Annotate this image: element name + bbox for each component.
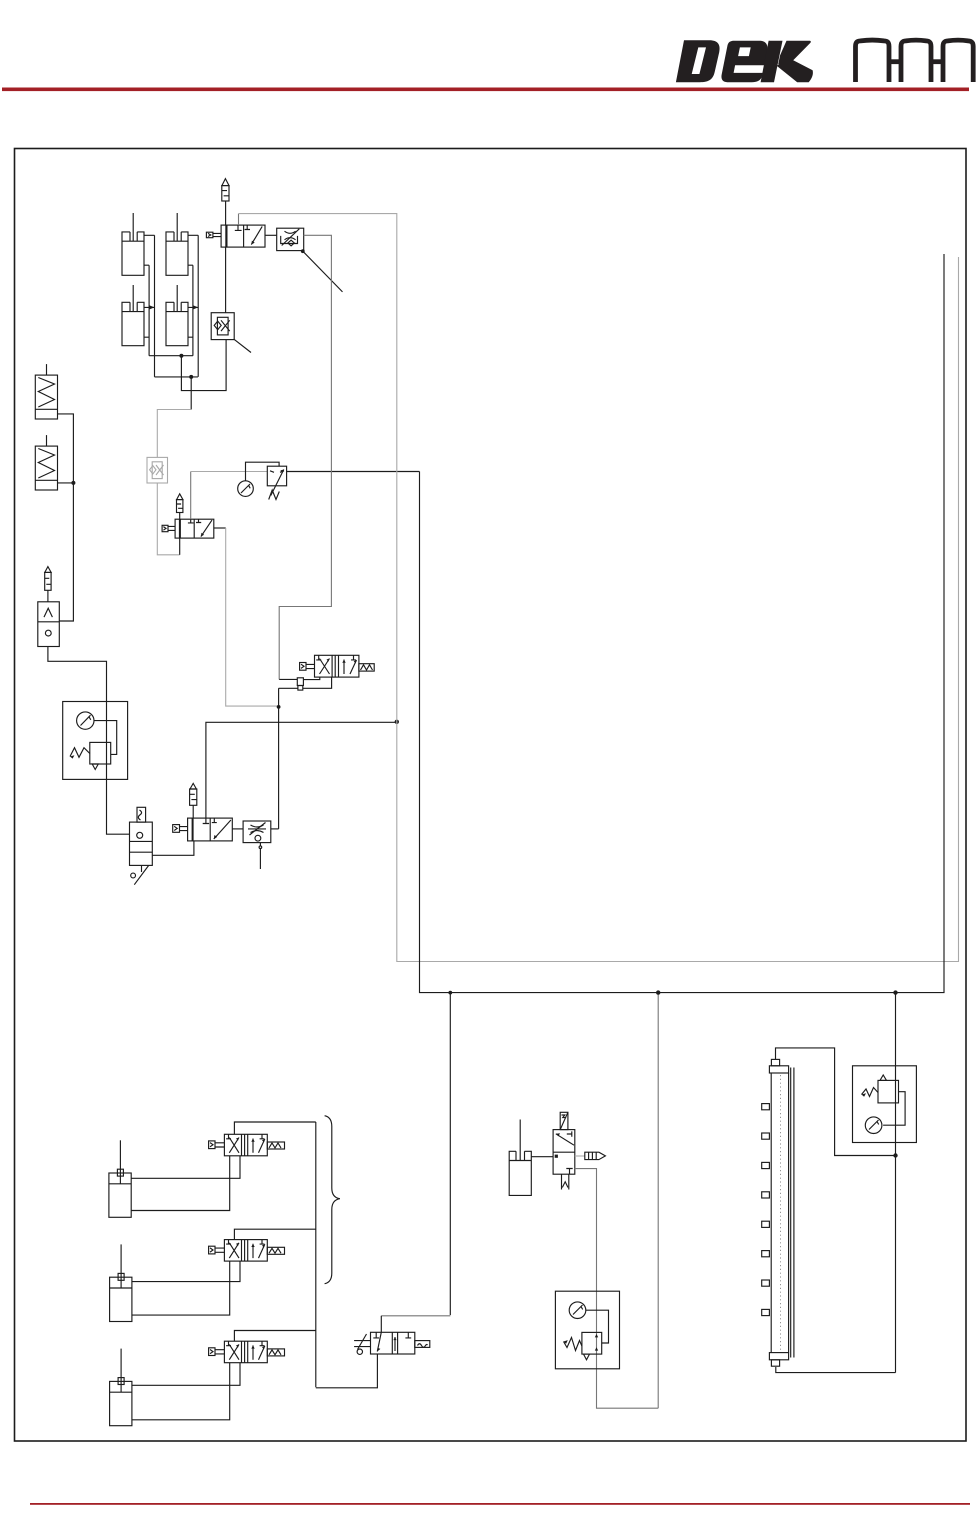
- wire V1 supply down to FC3: [225, 247, 227, 313]
- push button of V1: [206, 232, 221, 238]
- wire V2 out right: [214, 527, 226, 529]
- valve V1 (3/2 manual): [221, 225, 265, 247]
- check box CB1 (gray): [147, 457, 168, 483]
- cylinder C2: [110, 1244, 132, 1321]
- junction dot H1: [179, 354, 183, 358]
- wire fitting drop to FC2 line: [278, 722, 280, 829]
- wires cylinder C3 to valve VB3: [132, 1363, 240, 1420]
- filter above V4: [190, 783, 197, 818]
- filter above CV1: [45, 567, 51, 602]
- valve VB3 (5/2): [224, 1341, 267, 1363]
- wires cylinder C1 to valve VB1: [131, 1156, 240, 1211]
- spring of VB1: [267, 1142, 284, 1149]
- push button of VB2: [209, 1246, 225, 1254]
- spring of V3: [359, 664, 374, 671]
- drain line below FC2: [259, 843, 262, 869]
- solenoid valve SV1 (3/2): [553, 1130, 575, 1175]
- arrowheads on BL/BR port lines: [150, 305, 199, 309]
- wire lubricator to valve V4: [152, 841, 194, 855]
- cylinder TL: [122, 213, 144, 275]
- junction dot near fitting: [277, 705, 281, 709]
- valve V3 (5/2): [315, 655, 359, 677]
- brace: [325, 1116, 340, 1284]
- wire gray to CB1: [157, 410, 191, 458]
- wire V2 bottom port stub: [179, 538, 181, 555]
- regulator box RB2: [853, 1066, 917, 1143]
- wires cylinder C2 to valve VB2: [132, 1261, 240, 1315]
- wire manifold bottom link: [776, 1367, 896, 1373]
- junction dot at regulator drop: [893, 1153, 897, 1157]
- dark loop outline: [420, 254, 945, 993]
- wire V1 out to FC1: [265, 234, 277, 236]
- wire drop to solenoid group (medium): [657, 993, 659, 1409]
- wire drop to V8 (gray): [381, 1315, 450, 1317]
- filter regulator unit FRU: [63, 702, 128, 780]
- valve VB1 (5/2): [224, 1134, 267, 1156]
- junction dots on dark loop bottom: [448, 991, 452, 995]
- solenoid of SV1: [560, 1112, 568, 1129]
- lever valve V8: [371, 1332, 415, 1354]
- supply stub VB3: [234, 1331, 315, 1342]
- valve V4 (3/2): [188, 818, 233, 841]
- wire gauge G2 stem: [246, 462, 280, 481]
- push button of V3: [300, 663, 315, 671]
- cylinder C1: [109, 1140, 131, 1217]
- cylinder BL: [122, 285, 144, 346]
- push button of VB3: [209, 1348, 225, 1356]
- manifold rail: [769, 1059, 794, 1366]
- wire cylinder ports and risers: [144, 235, 198, 377]
- leader line from FC1: [303, 251, 343, 292]
- wire manifold top loop: [776, 1048, 896, 1156]
- wire drop to manifold regulator: [895, 993, 897, 1373]
- lever and roller of V8: [354, 1334, 370, 1354]
- wire supply to lever valve V8: [316, 1354, 378, 1388]
- check valve FC3 below V1: [211, 313, 234, 340]
- wire CB1 down to V2 bottom port (gray): [157, 483, 179, 555]
- manifold ports: [762, 1104, 770, 1316]
- junction dot S2: [71, 481, 75, 485]
- wire V4 to FC2: [232, 828, 243, 830]
- spring unit S1: [35, 364, 57, 419]
- junction dot H2: [189, 375, 193, 379]
- port square on SV1 left: [555, 1155, 558, 1158]
- junction dot on gray box edge: [395, 720, 399, 724]
- push button of VB1: [209, 1141, 225, 1149]
- header red rule: [2, 88, 969, 92]
- wire FRU to lubricator: [107, 779, 130, 834]
- footer red rule: [30, 1503, 970, 1505]
- cylinder TR: [166, 213, 188, 275]
- DEK logo text: [676, 40, 813, 82]
- filter above V2: [177, 494, 183, 519]
- muffler right of SV1: [575, 1152, 606, 1159]
- wire bus H1: [149, 355, 193, 357]
- flow control FC2: [243, 821, 271, 843]
- tank T1: [509, 1120, 531, 1196]
- wire H2 down: [190, 377, 192, 410]
- wire V2 top port riser: [190, 472, 192, 520]
- wire SV1 out down through RB1 (medium): [575, 1169, 658, 1409]
- wire V8 supply drop: [380, 1316, 382, 1333]
- valve VB2 (5/2): [224, 1240, 267, 1262]
- leader line from FC3: [234, 339, 251, 353]
- junction dot FC1 corner: [301, 249, 305, 253]
- pressure gauge G2: [238, 481, 254, 497]
- wires around fitting F1: [279, 677, 332, 722]
- lubricator L1: [130, 807, 153, 884]
- cylinder BR: [166, 285, 188, 346]
- wire CV1 to FRU: [48, 647, 107, 702]
- push button of V4: [173, 825, 188, 833]
- adjustment arrow of RB1: [564, 1334, 599, 1351]
- wire FC2 out to riser: [271, 828, 279, 830]
- wire regulator to dark loop: [287, 471, 420, 473]
- wire drop to bottom-left group: [449, 993, 451, 1316]
- supply stub VB1: [234, 1122, 315, 1134]
- flow control FC1: [277, 228, 304, 250]
- wire pilot line y471 (gray left part): [191, 471, 268, 473]
- valve V2 (3/2): [175, 519, 214, 538]
- spring of VB2: [267, 1247, 284, 1254]
- spring below SV1: [562, 1174, 569, 1189]
- cylinder C3: [110, 1349, 132, 1426]
- wire S1/S2 to CV1: [58, 414, 74, 621]
- DEK arches logo: [856, 40, 974, 82]
- spring unit S2: [35, 435, 57, 490]
- wire FC1 to fitting (medium gray): [279, 235, 331, 679]
- muffler M1: [222, 179, 229, 201]
- spring of VB3: [267, 1349, 284, 1356]
- wire muffler to valve V1: [225, 201, 227, 225]
- pressure regulator R1: [267, 466, 286, 499]
- gray box outline: [238, 214, 240, 226]
- wire H1 to check valve FC3: [181, 340, 226, 391]
- push button of V2: [162, 525, 175, 531]
- wire V2 out gray down to junction: [226, 528, 279, 706]
- supply stub VB2: [234, 1229, 315, 1239]
- fitting F1: [297, 678, 303, 690]
- spring of V8: [415, 1341, 430, 1348]
- check valve CV1: [38, 602, 60, 647]
- wire tank to SV1: [531, 1156, 553, 1158]
- wire bus H2: [155, 376, 198, 378]
- wire bus to valve V4: [206, 722, 397, 818]
- regulator box RB1: [555, 1291, 619, 1369]
- supply riser bottom group: [315, 1122, 317, 1387]
